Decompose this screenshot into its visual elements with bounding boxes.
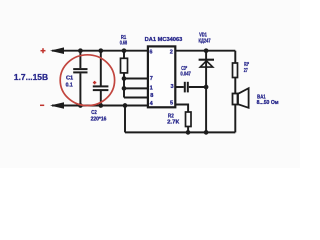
svg-text:3: 3: [170, 84, 173, 90]
svg-text:0.047: 0.047: [180, 71, 191, 77]
svg-text:C1: C1: [66, 76, 73, 82]
svg-text:1: 1: [150, 86, 153, 92]
svg-text:R3*: R3*: [244, 62, 249, 68]
svg-text:1.7...15В: 1.7...15В: [14, 72, 48, 82]
svg-text:8: 8: [150, 93, 153, 99]
svg-text:220*16: 220*16: [91, 116, 107, 122]
svg-text:R2: R2: [168, 113, 174, 119]
svg-text:6: 6: [149, 50, 152, 56]
svg-text:C2: C2: [91, 110, 97, 116]
svg-text:0.1: 0.1: [66, 82, 73, 88]
svg-text:5: 5: [170, 101, 173, 107]
svg-text:8...50 Ом: 8...50 Ом: [257, 100, 279, 106]
svg-text:2.7К: 2.7К: [167, 120, 180, 126]
svg-text:27: 27: [244, 68, 248, 74]
svg-text:КД247: КД247: [199, 38, 211, 44]
svg-text:2: 2: [170, 50, 173, 56]
svg-text:0.68: 0.68: [120, 41, 127, 47]
svg-text:DA1 MC34063: DA1 MC34063: [145, 37, 183, 43]
svg-text:7: 7: [150, 76, 153, 82]
